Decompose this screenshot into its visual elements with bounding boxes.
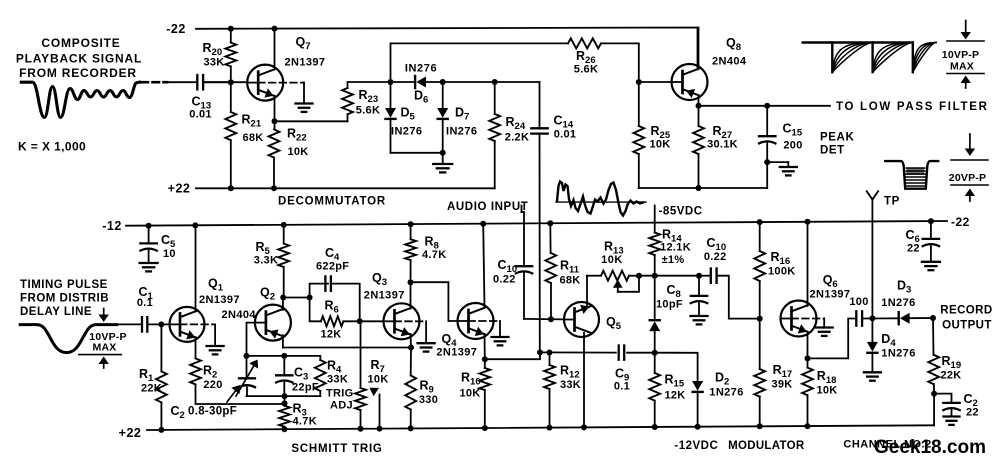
capacitor C9 (614, 346, 630, 393)
resistor R17 (754, 319, 792, 427)
junction +22/R18 (805, 423, 811, 429)
wire Q4 collector (483, 224, 484, 308)
junction R24 top (492, 79, 498, 85)
svg-text:10: 10 (163, 248, 176, 260)
junction D5 anode (388, 79, 394, 85)
resistor R21 (225, 82, 263, 188)
wire D-node up and across to R26 (391, 43, 569, 82)
resistor R9 (405, 348, 438, 429)
svg-text:±1%: ±1% (662, 254, 685, 266)
svg-text:MODULATOR: MODULATOR (728, 440, 805, 452)
waveform audio input sketch (556, 182, 646, 216)
wire Q3 collector to Q4 base (411, 282, 458, 321)
svg-text:20VP-P: 20VP-P (949, 172, 986, 184)
svg-text:0.1: 0.1 (614, 381, 630, 393)
capacitor C10 (audio coupling) (493, 258, 532, 319)
wire Q6 collector (807, 222, 809, 306)
wire R13 wiper (613, 276, 639, 292)
wire C2 branch (934, 394, 951, 403)
junction R3 top b (282, 400, 288, 406)
wire playback signal input (168, 81, 196, 83)
junction record output (930, 315, 936, 321)
watermark Geek18.com (874, 437, 986, 458)
ground at C2 (944, 417, 960, 425)
resistor R24 (489, 82, 529, 188)
wire Q7 emitter (274, 96, 276, 122)
text COMPOSITE PLAYBACK SIGNAL FROM RECORDER (16, 36, 142, 80)
svg-text:MAX: MAX (93, 342, 117, 354)
junction Q8 emitter node (696, 103, 702, 109)
wire C13 to Q7 base (203, 81, 247, 83)
resistor R7 (trig adj) (355, 321, 388, 428)
wire R7 wiper (370, 388, 380, 429)
wire R23 to diode network (348, 81, 416, 83)
junction R27 bottom (696, 185, 702, 191)
ground at Q7 base (296, 104, 313, 112)
svg-text:2N1397: 2N1397 (436, 347, 477, 359)
wire Q5 emitter (583, 333, 585, 428)
svg-text:0.22: 0.22 (493, 274, 516, 286)
wire Q6 emitter (807, 332, 809, 359)
capacitor 100pF (849, 296, 868, 326)
ground at C8 (691, 316, 708, 324)
text CHANNEL (843, 439, 931, 451)
junction Q3 collector node (408, 279, 414, 285)
resistor R3 (279, 396, 317, 429)
svg-text:AUDIO INPUT: AUDIO INPUT (447, 201, 528, 213)
svg-text:FROM DISTRIB: FROM DISTRIB (20, 293, 109, 305)
svg-text:TO LOW PASS FILTER: TO LOW PASS FILTER (836, 101, 989, 113)
junction C15 bottom (764, 159, 770, 165)
junction Q3 base node (357, 318, 363, 324)
wire Q2 emitter (282, 335, 284, 347)
junction rail/Q6 collector (805, 219, 811, 225)
text K = X 1,000 (18, 140, 86, 154)
svg-text:RECORD: RECORD (940, 305, 992, 317)
junction schmitt emitter/R9 (408, 345, 414, 351)
svg-text:2.2K: 2.2K (505, 132, 529, 144)
junction rail/C6 (928, 218, 934, 224)
wire Q7 collector (274, 29, 276, 70)
svg-text:33K: 33K (203, 57, 224, 69)
svg-text:2N1397: 2N1397 (285, 57, 326, 69)
junction +22/R21 (228, 185, 234, 191)
resistor R27 (693, 106, 738, 188)
svg-text:1N276: 1N276 (881, 348, 915, 360)
junction C4/R6 left node (307, 295, 313, 301)
resistor R6 (320, 299, 359, 341)
wire C4 branch (310, 284, 328, 298)
junction +22/R15 (652, 424, 658, 430)
junction C3 top (281, 353, 287, 359)
resistor R8 (405, 224, 446, 282)
junction Q2 base / C2 node (244, 353, 250, 359)
junction +22/R9 (408, 425, 414, 431)
text RECORD OUTPUT (940, 305, 992, 332)
resistor R25 (633, 82, 670, 188)
wire C10 to Q5 base (524, 318, 564, 321)
svg-text:3.3K: 3.3K (254, 255, 278, 267)
diode D1 (649, 276, 660, 353)
resistor R4 (315, 356, 348, 396)
resistor R10 (459, 359, 490, 428)
capacitor C15 (759, 106, 803, 162)
ground at C15 (780, 167, 797, 175)
wire C1 to Q1 base (147, 323, 169, 325)
wire peak-det output (699, 105, 831, 107)
transistor Q8 (672, 36, 747, 100)
wire Q2 base down (247, 323, 255, 356)
transistor Q4 (436, 303, 493, 359)
svg-text:30.1K: 30.1K (707, 139, 738, 151)
diode D4 (867, 318, 916, 371)
ground at C5 (140, 263, 158, 271)
wire R19 to +22 rail end (933, 394, 935, 426)
net -12 / -22 (middle rail) (102, 215, 970, 233)
svg-text:68K: 68K (559, 275, 580, 287)
net -85VDC (655, 206, 703, 233)
resistor R18 (802, 358, 837, 426)
svg-text:200: 200 (783, 140, 802, 152)
svg-text:10K: 10K (816, 385, 837, 397)
waveform sawtooth (to low pass filter) (803, 43, 936, 73)
svg-text:68K: 68K (242, 132, 263, 144)
resistor R26 (568, 38, 639, 75)
transistor Q7 (247, 35, 325, 101)
junction top rail / Q7 collector (272, 26, 278, 32)
junction R11 bottom / Q5 base (548, 316, 554, 322)
svg-text:K = X 1,000: K = X 1,000 (18, 140, 86, 154)
svg-text:IN276: IN276 (405, 63, 437, 75)
capacitor C3 (276, 356, 319, 396)
svg-text:12K: 12K (320, 329, 341, 341)
capacitor C8 (656, 276, 707, 315)
wire Q2 collector (282, 298, 284, 310)
diode D7 (437, 82, 477, 153)
svg-text:MAX: MAX (950, 61, 974, 73)
junction +22/R1 (158, 427, 164, 433)
net +22 (top rail) (168, 182, 495, 196)
svg-text:22K: 22K (940, 370, 961, 382)
svg-text:2N404: 2N404 (712, 56, 747, 68)
diode D3 (881, 279, 915, 325)
dimension 10VP-P MAX (sawtooth) (942, 21, 984, 89)
svg-text:IN276: IN276 (391, 126, 422, 138)
svg-text:0.01: 0.01 (554, 129, 577, 141)
svg-text:OUTPUT: OUTPUT (942, 320, 992, 332)
wire C2/C3/R4 bottom (247, 395, 321, 397)
text -12VDC (674, 440, 718, 452)
resistor R1 (139, 324, 167, 430)
wire schmitt emitter link (283, 347, 411, 349)
transistor Q6 (781, 273, 851, 337)
wire Q2 collector to C4/R6 node (283, 297, 309, 299)
junction rail/R5 (281, 222, 287, 228)
svg-text:220: 220 (203, 379, 222, 391)
wire R6 branch (310, 298, 321, 322)
junction R19 bottom / C2 (931, 391, 937, 397)
svg-text:12K: 12K (664, 390, 685, 402)
junction R13 right (636, 273, 642, 279)
text SCHMITT TRIG (291, 443, 382, 455)
wire D5-D7 cathodes (391, 152, 443, 154)
wire Q3 collector (410, 282, 412, 308)
wire trigger node (247, 355, 321, 357)
diode D5 (385, 82, 422, 153)
svg-text:Geek18.com: Geek18.com (874, 437, 986, 458)
junction TP / D4 node (869, 315, 875, 321)
wire Q4 base dashed to ground (469, 321, 501, 336)
wire Q3 base (360, 320, 384, 322)
capacitor C1 (117, 285, 154, 332)
junction rail/Q1 collector (192, 222, 198, 228)
svg-text:-12: -12 (102, 219, 122, 233)
wire Q8 collector (698, 28, 700, 69)
wire C4 to Q3 base node (331, 284, 360, 322)
resistor R15 (649, 353, 685, 427)
ground at Q1 base (207, 346, 224, 354)
ground at C6 (922, 262, 940, 270)
diode D2 (692, 371, 744, 427)
junction Q7 emitter node (272, 118, 278, 124)
svg-text:2N404: 2N404 (222, 309, 257, 321)
svg-text:DECOMMUTATOR: DECOMMUTATOR (278, 196, 386, 208)
junction C8 top (696, 273, 702, 279)
junction rail/R8 (408, 221, 414, 227)
svg-text:1N276: 1N276 (709, 387, 743, 399)
svg-text:DELAY LINE: DELAY LINE (20, 306, 92, 318)
junction C14 line / C9 wire (537, 349, 543, 355)
junction +22/R7 wiper (377, 426, 383, 432)
wire C15 bottom to rail (766, 162, 768, 188)
svg-text:2N1397: 2N1397 (364, 290, 405, 302)
wire Q4 emitter (484, 334, 486, 359)
wire C9 link (540, 351, 616, 353)
svg-text:PEAK: PEAK (820, 132, 854, 144)
svg-text:0.22: 0.22 (704, 251, 727, 263)
text MODULATOR (728, 440, 805, 452)
svg-text:TRIG: TRIG (326, 388, 353, 400)
svg-text:+22: +22 (168, 182, 191, 196)
wire D3 to record output (910, 317, 933, 319)
wire Q5 collector (586, 276, 588, 307)
junction Q6 base node (757, 316, 763, 322)
resistor R22 (269, 121, 309, 188)
wire emitter to 100pF (808, 319, 857, 359)
junction Q6 emitter node (805, 355, 811, 361)
net +22 (bottom rail) (119, 425, 934, 440)
junction R12 top (547, 350, 553, 356)
svg-text:0.8-30pF: 0.8-30pF (188, 406, 237, 418)
svg-text:10VP-P: 10VP-P (942, 49, 979, 61)
wire to D2 (655, 353, 698, 381)
resistor R16 (754, 222, 795, 319)
capacitor C13 (189, 75, 231, 121)
junction D7 anode (440, 79, 446, 85)
resistor R12 (544, 353, 581, 428)
svg-text:100: 100 (849, 296, 868, 308)
wire Q8 emitter (698, 95, 700, 106)
junction R3 top a (282, 393, 288, 399)
svg-text:22K: 22K (141, 383, 162, 395)
resistor R14 (649, 228, 691, 276)
svg-text:COMPOSITE: COMPOSITE (41, 36, 120, 50)
svg-text:10K: 10K (459, 388, 480, 400)
svg-text:22: 22 (907, 243, 920, 255)
waveform composite playback signal (21, 82, 139, 117)
junction signal/R20/R21 (228, 79, 234, 85)
junction C15 top (764, 103, 770, 109)
resistor R20 (203, 29, 237, 82)
wire Q7 base dashed to ground (258, 83, 304, 103)
wire Q3 base dashed to ground (395, 321, 427, 342)
svg-text:22: 22 (966, 407, 979, 419)
svg-text:-22: -22 (166, 22, 186, 36)
svg-text:DET: DET (820, 145, 845, 157)
junction Q4 emitter / R10 (482, 356, 488, 362)
capacitor C2 (output) (943, 392, 979, 419)
junction R14 bottom (652, 273, 658, 279)
resistor R11 (545, 223, 580, 319)
svg-text:10K: 10K (601, 254, 623, 266)
transistor Q1 (170, 277, 240, 342)
ground at Q4 base (492, 337, 509, 345)
junction +22/R3 (282, 426, 288, 432)
text TO LOW PASS FILTER (836, 101, 989, 113)
diode D6 (405, 63, 437, 106)
wire R13 left (587, 275, 601, 277)
waveform pedestal (20VP-P) (885, 161, 938, 189)
junction rail/R11 (547, 220, 553, 226)
text AUDIO INPUT (447, 201, 528, 213)
junction Q2 collector node (280, 295, 286, 301)
svg-text:PLAYBACK SIGNAL: PLAYBACK SIGNAL (16, 52, 142, 66)
svg-text:5.6K: 5.6K (574, 64, 598, 76)
svg-text:4.7K: 4.7K (293, 416, 317, 428)
wire dashed input segment (142, 81, 168, 84)
svg-text:10K: 10K (287, 146, 308, 158)
junction +22/R22 (271, 185, 277, 191)
svg-text:2N1397: 2N1397 (810, 289, 851, 301)
wire R26 to Q8 base node (638, 43, 640, 82)
ground below D5 D7 (433, 153, 452, 173)
svg-text:4.7K: 4.7K (422, 249, 446, 261)
wire 100pF to TP node (862, 317, 899, 319)
junction D1/R15/C9 node (652, 350, 658, 356)
text TIMING PULSE FROM DISTRIB DELAY LINE (20, 279, 109, 318)
capacitor C4 (316, 246, 349, 291)
svg-text:622pF: 622pF (316, 261, 349, 273)
wire Q6 base dashed to ground (792, 319, 825, 327)
ground at D4 (864, 372, 881, 380)
junction Q1 base node (158, 321, 164, 327)
svg-text:TIMING PULSE: TIMING PULSE (20, 279, 108, 291)
svg-text:ADJ: ADJ (330, 400, 353, 412)
junction rail/C5 (146, 223, 152, 229)
svg-text:1N276: 1N276 (881, 297, 915, 309)
transistor Q3 (364, 271, 420, 339)
ground at Q3 base (418, 343, 435, 351)
dimension 20VP-P (949, 134, 988, 201)
svg-text:-22: -22 (951, 215, 970, 229)
wire Q8 base (639, 81, 672, 83)
ground at Q6 base (816, 328, 833, 336)
svg-text:IN276: IN276 (446, 126, 477, 138)
test point TP (867, 191, 900, 317)
wire R25-R27 bottom (639, 187, 767, 189)
svg-text:33K: 33K (560, 379, 581, 391)
wire Q4 emitter to C9 node (485, 352, 540, 359)
wire C2 label arrow (227, 385, 240, 402)
wire R13 to R14 node (639, 275, 711, 277)
svg-text:100K: 100K (768, 266, 796, 278)
capacitor C6 (906, 221, 940, 261)
junction +22/R10 (482, 425, 488, 431)
wire Q7 emitter to R23 (275, 120, 348, 122)
junction +22/R7 (358, 426, 364, 432)
svg-text:SCHMITT TRIG: SCHMITT TRIG (291, 443, 382, 455)
junction +22/D2 (695, 424, 701, 430)
wire Q1 base dashed to ground (180, 324, 215, 345)
svg-text:10pF: 10pF (656, 299, 683, 311)
resistor R23 (342, 82, 380, 121)
svg-text:33K: 33K (327, 374, 348, 386)
junction diode ground node (440, 150, 446, 156)
svg-text:0.01: 0.01 (189, 109, 212, 121)
junction +22/Q5 emitter (581, 424, 587, 430)
svg-text:39K: 39K (771, 379, 792, 391)
junction +22/R17 (757, 423, 763, 429)
resistor R5 (254, 225, 289, 298)
svg-text:0.1: 0.1 (137, 297, 153, 309)
variable capacitor C2 (0.8-30pF) (171, 356, 259, 421)
svg-text:-85VDC: -85VDC (659, 206, 703, 218)
text TRIG ADJ (326, 388, 353, 412)
junction top rail / R20 (228, 26, 234, 32)
capacitor C10 (modulator coupling) (704, 236, 727, 283)
resistor R13 (pot) (601, 240, 639, 281)
svg-text:2N1397: 2N1397 (199, 294, 240, 306)
wire C10 to Q6 base (717, 276, 760, 319)
net -22 (top rail) (166, 22, 697, 69)
dimension 10VP-P MAX (timing pulse) (79, 309, 127, 369)
svg-text:-12VDC: -12VDC (674, 440, 718, 452)
wire Q1 emitter (195, 337, 197, 358)
transistor Q2 (222, 286, 291, 341)
wire to C14 (495, 81, 540, 83)
svg-text:+22: +22 (119, 426, 142, 440)
svg-text:330: 330 (419, 394, 438, 406)
wire Q1 collector (195, 225, 197, 311)
svg-text:FROM RECORDER: FROM RECORDER (19, 66, 137, 80)
capacitor C14 (531, 82, 576, 352)
junction +22/R12 (547, 425, 553, 431)
svg-text:10K: 10K (649, 139, 670, 151)
wire D6 to D7 node (425, 81, 495, 83)
waveform timing pulse (20, 325, 117, 353)
resistor R2 (190, 358, 284, 404)
text DECOMMUTATOR (278, 196, 386, 208)
text PEAK DET (820, 132, 854, 157)
svg-text:12.1K: 12.1K (660, 242, 691, 254)
svg-text:TP: TP (884, 196, 900, 208)
junction Q8 base node (636, 79, 642, 85)
transistor Q5 (564, 302, 622, 337)
resistor R19 (928, 318, 961, 394)
wire Q3 emitter (410, 334, 413, 348)
svg-text:10K: 10K (368, 374, 389, 386)
wire audio input (522, 206, 525, 267)
